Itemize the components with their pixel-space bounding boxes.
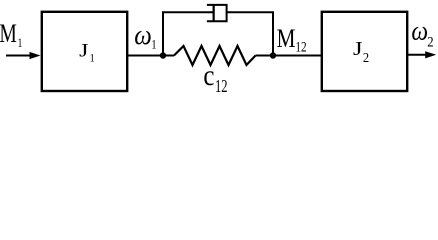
label J2 (353, 37, 369, 65)
damper D12 cylinder cup (207, 5, 227, 21)
wire riser right (272, 12, 274, 55)
speed label omega2 (411, 16, 433, 51)
input arrow (6, 52, 41, 59)
svg-text:1: 1 (18, 37, 23, 51)
svg-text:12: 12 (295, 38, 306, 55)
svg-text:M: M (0, 18, 17, 47)
svg-text:2: 2 (427, 35, 433, 51)
damper rod left (162, 11, 214, 13)
speed label omega1 (134, 18, 156, 51)
damper D12 piston (213, 4, 215, 21)
inertia block J2 (322, 12, 407, 91)
wire riser left (162, 12, 164, 56)
node junction right (270, 52, 276, 58)
inertia block J1 (42, 12, 127, 91)
svg-text:1: 1 (90, 52, 95, 65)
svg-text:2: 2 (363, 49, 369, 65)
svg-text:ω: ω (134, 18, 152, 50)
label J1 (79, 40, 95, 65)
svg-text:c: c (203, 58, 214, 92)
wire J1 to node (128, 55, 174, 57)
svg-text:ω: ω (411, 16, 428, 46)
svg-text:J: J (353, 37, 363, 59)
svg-text:J: J (79, 40, 88, 61)
torque label M1 (0, 18, 22, 50)
svg-text:1: 1 (151, 37, 156, 51)
svg-text:12: 12 (215, 77, 228, 97)
output arrow (407, 51, 436, 58)
damper rod right (227, 11, 274, 13)
torque label M12 (277, 25, 307, 55)
spring c12 (174, 46, 256, 65)
node junction left (160, 52, 166, 58)
label c12 (203, 58, 227, 97)
svg-text:M: M (277, 25, 296, 54)
wire node to J2 (256, 55, 322, 57)
